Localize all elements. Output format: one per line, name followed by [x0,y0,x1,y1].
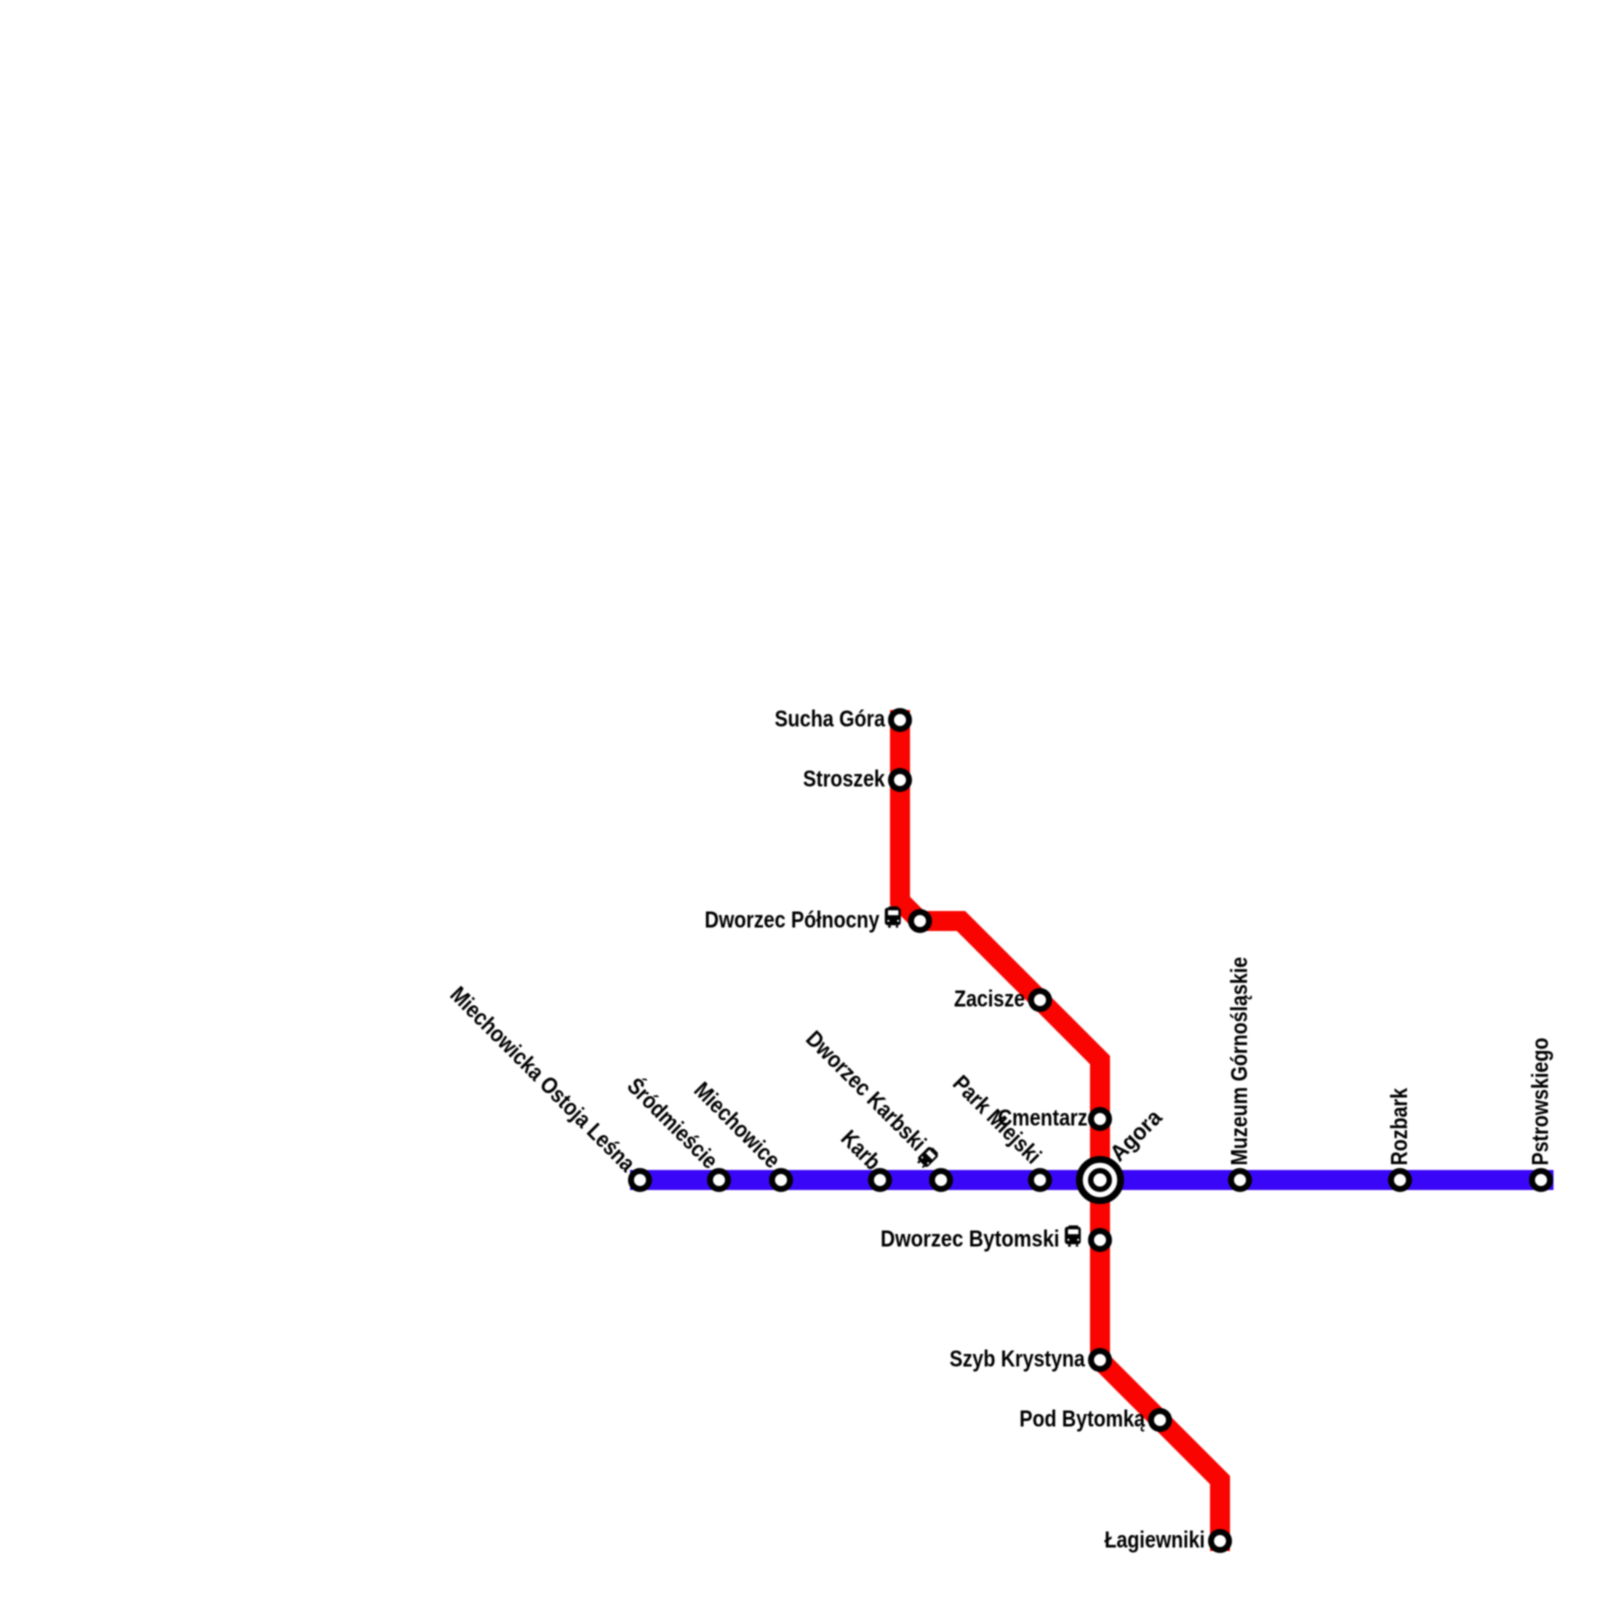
svg-text:Pod Bytomką: Pod Bytomką [1019,1406,1146,1432]
svg-text:Stroszek: Stroszek [803,766,885,792]
svg-text:Łagiewniki: Łagiewniki [1104,1527,1205,1553]
svg-text:Muzeum Górnośląskie: Muzeum Górnośląskie [1227,957,1253,1166]
svg-text:Rozbark: Rozbark [1387,1088,1413,1166]
svg-text:Zacisze: Zacisze [954,986,1025,1012]
svg-text:Pstrowskiego: Pstrowskiego [1528,1038,1554,1166]
svg-text:Sucha Góra: Sucha Góra [775,706,886,732]
svg-text:Dworzec Północny: Dworzec Północny [705,907,880,933]
svg-text:Dworzec Bytomski: Dworzec Bytomski [881,1225,1060,1252]
svg-text:Szyb Krystyna: Szyb Krystyna [949,1346,1086,1372]
